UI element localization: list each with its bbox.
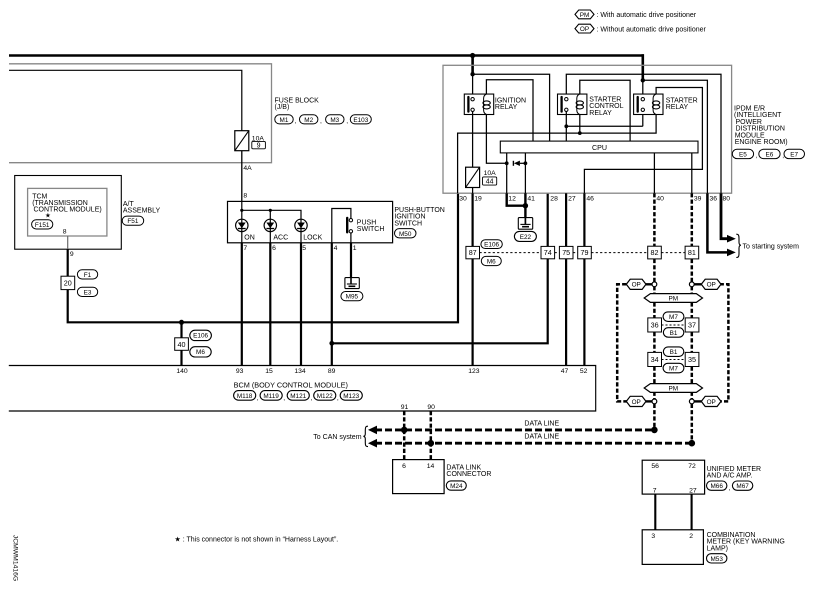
push-button ignition switch box	[228, 201, 393, 242]
svg-text:75: 75	[562, 248, 570, 257]
node diode right	[524, 161, 528, 165]
push switch contacts	[347, 218, 352, 233]
wire OP hex stub top-left	[646, 283, 652, 285]
wire 34/35 to PM hex bottom	[654, 367, 691, 384]
svg-text:RELAY: RELAY	[495, 104, 518, 111]
diode LOCK	[295, 219, 307, 231]
svg-text:DATA LINE: DATA LINE	[524, 421, 559, 428]
wire battery drop to starter relay	[641, 54, 644, 80]
svg-text:2: 2	[689, 533, 693, 540]
wire coil-return bus (pin 30)	[458, 115, 656, 194]
svg-text:52: 52	[580, 368, 588, 375]
svg-text:,: ,	[295, 118, 297, 125]
connector 36	[648, 318, 662, 332]
svg-text:44: 44	[486, 178, 494, 185]
svg-text:M50: M50	[399, 231, 412, 238]
arrow to starting system upper	[727, 235, 736, 243]
svg-text:M121: M121	[290, 393, 306, 400]
svg-text:M7: M7	[669, 366, 678, 373]
wire fuse block feed	[9, 70, 242, 130]
wire switch pin 4 to BCM 89	[331, 243, 333, 366]
label PUSH-BUTTON IGNITION SWITCH	[394, 207, 444, 227]
label IPDM E/R	[734, 106, 788, 147]
diode ACC	[264, 219, 276, 231]
node pin41 junction	[523, 203, 528, 208]
wire battery main line	[9, 54, 644, 57]
arrow to starting system lower	[727, 249, 736, 257]
svg-text:LAMP): LAMP)	[707, 545, 728, 552]
wire switch pin 7 to BCM 93	[241, 243, 243, 366]
arrow CAN lower	[368, 439, 377, 448]
connector 37	[685, 318, 699, 332]
PM hexagon bottom	[644, 384, 702, 393]
connector 35	[685, 352, 699, 366]
connector M118	[234, 391, 259, 402]
connector 82	[648, 246, 662, 259]
wire SC coil top to CPU	[580, 80, 630, 141]
wire fuse 44 to pin 19	[472, 188, 474, 194]
svg-text:E106: E106	[193, 333, 208, 340]
svg-text:M7: M7	[669, 314, 678, 321]
wire connector 40 to BCM pin 140	[180, 350, 182, 365]
svg-text:E7: E7	[790, 152, 798, 159]
wire feed to ignition relay contact	[472, 74, 474, 97]
connector M6	[190, 347, 211, 357]
svg-text:OP: OP	[580, 26, 589, 33]
connector M3	[326, 115, 349, 125]
legend OP symbol	[575, 24, 706, 33]
node split circle top-right	[689, 282, 694, 287]
connector 81	[685, 246, 699, 259]
wire data line 2	[375, 442, 692, 445]
connector 40 (E106/M6)	[175, 338, 189, 351]
wire contact link SC to starter relay	[566, 125, 643, 127]
svg-text:,: ,	[283, 395, 285, 402]
connector M7 lower	[663, 363, 684, 373]
svg-text:OP: OP	[632, 282, 641, 289]
svg-text:★: ★	[45, 212, 51, 220]
wire OP hex stub top-right	[694, 283, 701, 285]
svg-text:41: 41	[527, 196, 535, 203]
wire ON diode through	[241, 210, 243, 243]
connector 75	[559, 246, 573, 258]
wire CPU to pin 40	[653, 153, 655, 193]
node SC contact junction	[564, 124, 568, 128]
unified meter box	[642, 460, 704, 494]
ignition relay U1	[464, 94, 493, 114]
connector 79	[578, 246, 592, 258]
svg-text:4A: 4A	[243, 165, 252, 172]
connector M1	[275, 115, 297, 125]
DLC pin labels	[402, 463, 434, 470]
connector M50	[395, 229, 417, 238]
svg-text:ENGINE ROOM): ENGINE ROOM)	[735, 139, 788, 146]
svg-text:140: 140	[176, 368, 188, 375]
wire starter relay contact bottom	[642, 112, 644, 127]
node data line 1 at 91	[401, 427, 408, 434]
wire fuse to switch	[241, 151, 243, 202]
svg-text:82: 82	[651, 248, 659, 257]
label STARTER CONTROL RELAY	[589, 97, 623, 117]
IPDM pin labels	[459, 196, 730, 203]
svg-text:79: 79	[581, 248, 589, 257]
node split circle bottom-right	[689, 399, 694, 404]
connector B1 lower	[663, 347, 683, 357]
node junction to connector 40	[179, 320, 184, 325]
fuse block box	[9, 64, 272, 163]
combination meter pin labels	[651, 533, 693, 540]
unified meter pin labels	[651, 463, 696, 494]
node split circle bottom-left	[652, 399, 657, 404]
svg-text:M122: M122	[317, 393, 333, 400]
wire starter feed to pin 36	[643, 80, 708, 193]
svg-text:81: 81	[688, 248, 696, 257]
svg-text:6: 6	[402, 463, 406, 470]
svg-text:To starting system: To starting system	[743, 243, 800, 250]
svg-text:46: 46	[586, 196, 594, 203]
svg-text:M2: M2	[304, 117, 313, 124]
connector row dashed link	[480, 252, 685, 254]
svg-text:7: 7	[243, 245, 247, 252]
svg-text:,: ,	[756, 153, 758, 160]
node diode left	[505, 161, 509, 165]
svg-text:,: ,	[320, 118, 322, 125]
svg-text:OP: OP	[707, 399, 716, 406]
svg-text:30: 30	[459, 196, 467, 203]
svg-text:20: 20	[64, 279, 72, 288]
svg-text:E103: E103	[353, 117, 368, 124]
label FUSE BLOCK	[275, 97, 320, 111]
label COMBINATION METER	[707, 532, 785, 552]
svg-text:1: 1	[353, 245, 357, 252]
svg-text:OP: OP	[632, 399, 641, 406]
svg-text:14: 14	[427, 463, 435, 470]
svg-text:★ : This connector is not show: ★ : This connector is not shown in “Harn…	[175, 536, 339, 544]
svg-text:BCM (BODY CONTROL MODULE): BCM (BODY CONTROL MODULE)	[234, 380, 348, 389]
wire OP hex stub bottom-left	[646, 400, 652, 402]
wire pin 41 to ground	[524, 193, 526, 217]
svg-text:34: 34	[651, 355, 659, 364]
svg-text:ON: ON	[244, 234, 255, 241]
svg-text:40: 40	[656, 196, 664, 203]
node starter feed junction	[641, 78, 645, 82]
svg-text:47: 47	[561, 368, 569, 375]
wire junction to connector 40	[180, 322, 182, 338]
wire pin 80 to starting system	[721, 193, 727, 239]
svg-text:10A: 10A	[484, 170, 497, 177]
connector F151	[32, 220, 53, 229]
connector E6	[759, 149, 785, 159]
svg-text:M119: M119	[263, 393, 279, 400]
svg-text:,: ,	[346, 118, 348, 125]
connector M121	[287, 391, 312, 402]
svg-text:91: 91	[401, 404, 409, 411]
svg-text:37: 37	[688, 321, 696, 330]
svg-text:AND A/C AMP.: AND A/C AMP.	[707, 473, 753, 480]
ground M95	[345, 278, 359, 289]
node bus ACC	[269, 209, 272, 212]
TCM box	[28, 188, 107, 236]
wire PM hex bottom to splits	[654, 392, 691, 399]
svg-text:M118: M118	[237, 393, 253, 400]
svg-text:35: 35	[688, 355, 696, 364]
connector E7	[784, 149, 805, 158]
legend PM symbol	[575, 10, 697, 19]
svg-text:: With automatic drive positio: : With automatic drive positioner	[597, 12, 697, 19]
brace starting system	[736, 234, 741, 257]
svg-text:F151: F151	[35, 222, 50, 229]
svg-text:12: 12	[508, 196, 516, 203]
svg-text:28: 28	[550, 196, 558, 203]
fuse 10A (fuse 9)	[235, 131, 266, 151]
wire split to PM hex top	[654, 287, 691, 294]
svg-text:72: 72	[688, 463, 696, 470]
wire 81 to split	[691, 259, 694, 282]
wire ignition contact to fuse 44	[472, 112, 474, 168]
connector F1	[77, 270, 97, 279]
label A/T ASSEMBLY	[123, 201, 161, 215]
connector M6 at row	[481, 256, 501, 265]
connector F51	[122, 216, 144, 225]
label DATA LINK CONNECTOR	[446, 464, 491, 478]
wire pin 40 dashed upper	[653, 193, 656, 246]
svg-text:RELAY: RELAY	[666, 104, 689, 111]
svg-text:DATA LINE: DATA LINE	[524, 434, 559, 441]
svg-text:80: 80	[723, 196, 731, 203]
data link connector box	[393, 460, 445, 494]
connector 34	[648, 352, 662, 366]
starter control relay U2	[558, 94, 587, 114]
node split circle top-left	[652, 282, 657, 287]
wire meter 7 to comb 3	[654, 494, 656, 530]
OP hexagon bottom-left	[626, 396, 646, 406]
node data line 1 at 56	[651, 427, 658, 434]
svg-text:39: 39	[694, 196, 702, 203]
svg-text:PM: PM	[580, 12, 590, 19]
svg-text:,: ,	[257, 395, 259, 402]
IPDM E/R box	[443, 65, 732, 193]
connector M67	[732, 481, 752, 490]
label UNIFIED METER AND A/C AMP	[707, 466, 761, 480]
ground E22	[518, 218, 532, 230]
svg-text:87: 87	[469, 248, 477, 257]
svg-text:(J/B): (J/B)	[275, 104, 290, 111]
svg-text:74: 74	[544, 248, 552, 257]
wire pin 39 dashed upper	[691, 193, 694, 246]
link 36-37 dotted	[662, 324, 686, 326]
wire 36/37 to 34/35	[654, 332, 691, 352]
svg-text:CONNECTOR: CONNECTOR	[446, 471, 491, 478]
wire diode bus	[242, 201, 301, 219]
connector M123	[340, 391, 362, 401]
wire pin 46 to BCM 52	[583, 193, 585, 365]
node data line 2 at 90	[428, 440, 435, 447]
svg-text:M24: M24	[450, 483, 463, 490]
svg-text:,: ,	[729, 485, 731, 492]
svg-text:8: 8	[243, 193, 247, 200]
wire switch pin 5 to BCM 134	[300, 243, 302, 366]
wire CPU to pin 41	[524, 153, 526, 193]
wire split to data line 1	[653, 404, 656, 430]
svg-text:E106: E106	[484, 242, 499, 249]
wire meter 27 to comb 2	[691, 494, 693, 530]
wire CPU to pin 12	[506, 153, 508, 193]
svg-text:PM: PM	[669, 295, 679, 302]
node data line 2 at 72	[689, 440, 696, 447]
node SC coil bottom junction	[578, 131, 582, 135]
svg-text:123: 123	[468, 368, 480, 375]
wire 82 to split	[653, 259, 656, 282]
brace CAN	[363, 426, 368, 446]
connector M53	[707, 554, 727, 563]
svg-text:M1: M1	[280, 117, 289, 124]
svg-text:SWITCH: SWITCH	[394, 220, 422, 227]
wire BCM 90 to data line 2 and DLC 14	[430, 411, 433, 460]
svg-text:ACC: ACC	[273, 234, 288, 241]
wire TCM down	[67, 249, 69, 276]
OP hexagon top-left	[626, 279, 646, 289]
node pin4 branch	[329, 341, 334, 346]
svg-text:M53: M53	[710, 556, 723, 563]
diode D1	[513, 161, 525, 166]
svg-text:B1: B1	[670, 349, 678, 356]
connector M24	[446, 481, 466, 490]
svg-text:M67: M67	[736, 483, 749, 490]
fuse 10A (fuse 44)	[466, 167, 497, 187]
wire TCM to junction	[68, 193, 458, 322]
svg-text:7: 7	[653, 487, 657, 494]
wire starter feed to starter relay contact	[642, 80, 644, 97]
svg-text:3: 3	[651, 533, 655, 540]
wire feed to SC relay contact and pin 80	[566, 74, 721, 193]
label PUSH SWITCH	[357, 220, 385, 234]
svg-text:E6: E6	[765, 152, 773, 159]
svg-text:15: 15	[265, 368, 273, 375]
svg-text:36: 36	[710, 196, 718, 203]
connector M66	[707, 481, 731, 492]
wire TCM pin 8 inside	[67, 236, 69, 249]
svg-text:RELAY: RELAY	[589, 110, 612, 117]
connector M2	[300, 115, 323, 125]
svg-text:E5: E5	[739, 152, 747, 159]
wire data line 1	[375, 428, 654, 431]
connector E22	[514, 231, 536, 241]
node bus ON	[240, 209, 243, 212]
connector E103	[350, 115, 371, 124]
svg-text:4: 4	[334, 245, 338, 252]
svg-text:F1: F1	[84, 272, 92, 279]
svg-text:OP: OP	[707, 282, 716, 289]
svg-text:27: 27	[689, 487, 697, 494]
svg-text:90: 90	[427, 404, 435, 411]
wire BCM 91 to data line 1 and DLC 6	[403, 411, 406, 460]
wire push switch pin 1	[350, 233, 352, 243]
wire CPU to pin 39	[691, 153, 693, 193]
label STARTER RELAY	[666, 97, 698, 111]
wire branch to IPDM pin 28	[332, 193, 548, 343]
svg-text:5: 5	[302, 245, 306, 252]
svg-text:,: ,	[310, 395, 312, 402]
wire switch pin 6 to BCM 15	[269, 243, 271, 366]
connector M119	[260, 391, 285, 402]
svg-text:36: 36	[651, 321, 659, 330]
wire SC coil bottom	[579, 115, 581, 134]
svg-text:27: 27	[568, 196, 576, 203]
wire OP bypass right	[718, 284, 729, 401]
wire pin 1 to ground	[350, 243, 352, 278]
svg-text:M95: M95	[346, 294, 359, 301]
connector E5	[732, 149, 758, 159]
svg-text:40: 40	[178, 340, 186, 349]
svg-text:M66: M66	[710, 483, 723, 490]
svg-text:89: 89	[328, 368, 336, 375]
svg-text:E3: E3	[84, 289, 92, 296]
connector 20 (F1/E3)	[61, 276, 75, 289]
BCM pin labels	[176, 368, 587, 375]
svg-text:CONTROL MODULE): CONTROL MODULE)	[34, 207, 102, 214]
svg-text:JCMWM1416G: JCMWM1416G	[12, 535, 19, 581]
connector M7 upper	[663, 312, 684, 322]
svg-text:93: 93	[236, 368, 244, 375]
wire OP bypass left	[617, 284, 628, 401]
label TCM	[32, 193, 102, 213]
connector E106	[190, 330, 212, 340]
OP hexagon top-right	[701, 279, 721, 289]
svg-text:M123: M123	[343, 393, 359, 400]
svg-text:8: 8	[63, 228, 67, 235]
starter relay U3	[634, 94, 663, 114]
wire ignition coil top to CPU	[486, 80, 533, 141]
diode ON	[236, 219, 248, 231]
BCM box	[9, 366, 596, 412]
svg-text:E22: E22	[520, 234, 532, 241]
label IGNITION RELAY	[495, 97, 526, 111]
wire battery drop to ignition relay	[471, 56, 474, 75]
svg-text:M3: M3	[330, 117, 339, 124]
svg-text:To CAN system: To CAN system	[313, 434, 361, 441]
svg-text:,: ,	[337, 395, 339, 402]
CPU box	[500, 141, 698, 153]
svg-text:PM: PM	[669, 385, 679, 392]
svg-text:LOCK: LOCK	[303, 234, 322, 241]
svg-text:: Without automatic drive posi: : Without automatic drive positioner	[597, 26, 707, 33]
wire split to data line 2	[691, 404, 694, 443]
wire ACC diode through	[269, 210, 271, 243]
svg-text:M6: M6	[487, 259, 496, 266]
node ignition feed junction	[470, 72, 474, 76]
wire SC contact bottom to CPU	[565, 112, 567, 142]
link 34-35 dotted	[662, 359, 686, 361]
svg-text:ASSEMBLY: ASSEMBLY	[123, 208, 161, 215]
svg-text:B1: B1	[670, 330, 678, 337]
wire LOCK diode through	[300, 219, 302, 243]
arrow CAN upper	[368, 426, 377, 435]
connector E3	[77, 287, 97, 296]
connector E106 at row	[481, 240, 502, 249]
wire push switch pin 4	[332, 209, 351, 243]
wire PM hex to connectors 36/37	[654, 302, 691, 318]
connector M95	[341, 292, 363, 301]
wire ignition coil bottom to diode	[486, 115, 506, 164]
wire pin 36 to starting system	[707, 193, 727, 252]
connector B1 upper	[663, 328, 683, 338]
svg-text:CPU: CPU	[592, 144, 607, 152]
connector M122	[314, 391, 339, 402]
svg-text:SWITCH: SWITCH	[357, 226, 385, 233]
connector 74	[541, 246, 555, 258]
svg-text:M6: M6	[196, 349, 205, 356]
wire pin 27 to BCM 47	[565, 193, 567, 365]
